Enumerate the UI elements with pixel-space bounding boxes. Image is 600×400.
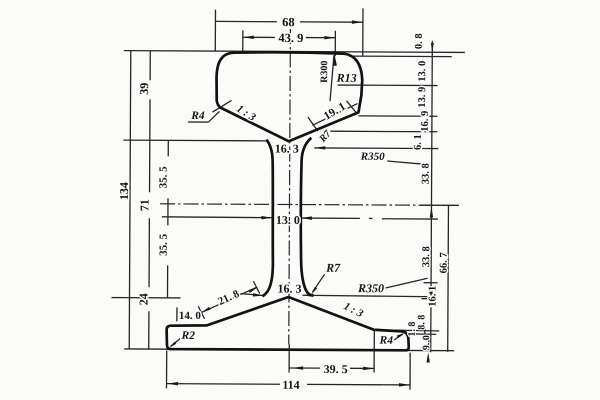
svg-text:13. 9: 13. 9 bbox=[417, 87, 428, 108]
svg-text:0. 8: 0. 8 bbox=[414, 33, 425, 49]
svg-text:R7: R7 bbox=[317, 128, 334, 146]
svg-text:8. 8: 8. 8 bbox=[416, 315, 427, 330]
svg-text:33. 8: 33. 8 bbox=[421, 246, 432, 267]
svg-text:14. 0: 14. 0 bbox=[179, 310, 202, 322]
svg-text:R7: R7 bbox=[325, 261, 341, 275]
svg-text:16. 1: 16. 1 bbox=[427, 286, 438, 307]
svg-text:R350: R350 bbox=[360, 151, 385, 163]
svg-text:68: 68 bbox=[282, 15, 295, 29]
svg-text:16. 3: 16. 3 bbox=[277, 282, 301, 296]
svg-text:134: 134 bbox=[117, 182, 131, 200]
svg-text:R350: R350 bbox=[357, 281, 384, 295]
svg-text:16. 9: 16. 9 bbox=[420, 111, 431, 132]
svg-text:1. 8: 1. 8 bbox=[407, 322, 418, 337]
svg-text:43. 9: 43. 9 bbox=[278, 31, 303, 45]
svg-text:9. 0: 9. 0 bbox=[421, 335, 432, 350]
svg-text:21. 8: 21. 8 bbox=[216, 288, 241, 308]
svg-text:24: 24 bbox=[136, 293, 150, 305]
svg-text:35. 5: 35. 5 bbox=[158, 233, 170, 256]
svg-text:R300: R300 bbox=[319, 61, 330, 83]
svg-text:66. 7: 66. 7 bbox=[439, 252, 450, 273]
svg-text:33. 8: 33. 8 bbox=[421, 163, 432, 184]
svg-text:13. 0: 13. 0 bbox=[417, 61, 428, 82]
svg-text:6. 1: 6. 1 bbox=[413, 134, 424, 150]
svg-text:39: 39 bbox=[137, 83, 151, 95]
svg-text:R4: R4 bbox=[379, 335, 394, 347]
svg-text:16. 3: 16. 3 bbox=[275, 142, 299, 156]
svg-text:71: 71 bbox=[137, 199, 151, 211]
svg-text:R2: R2 bbox=[181, 330, 196, 342]
svg-text:114: 114 bbox=[282, 378, 299, 392]
svg-text:13. 0: 13. 0 bbox=[276, 213, 300, 227]
svg-text:35. 5: 35. 5 bbox=[158, 166, 170, 189]
svg-text:R13: R13 bbox=[336, 71, 357, 85]
svg-text:39. 5: 39. 5 bbox=[324, 362, 348, 376]
svg-text:R4: R4 bbox=[190, 110, 205, 122]
